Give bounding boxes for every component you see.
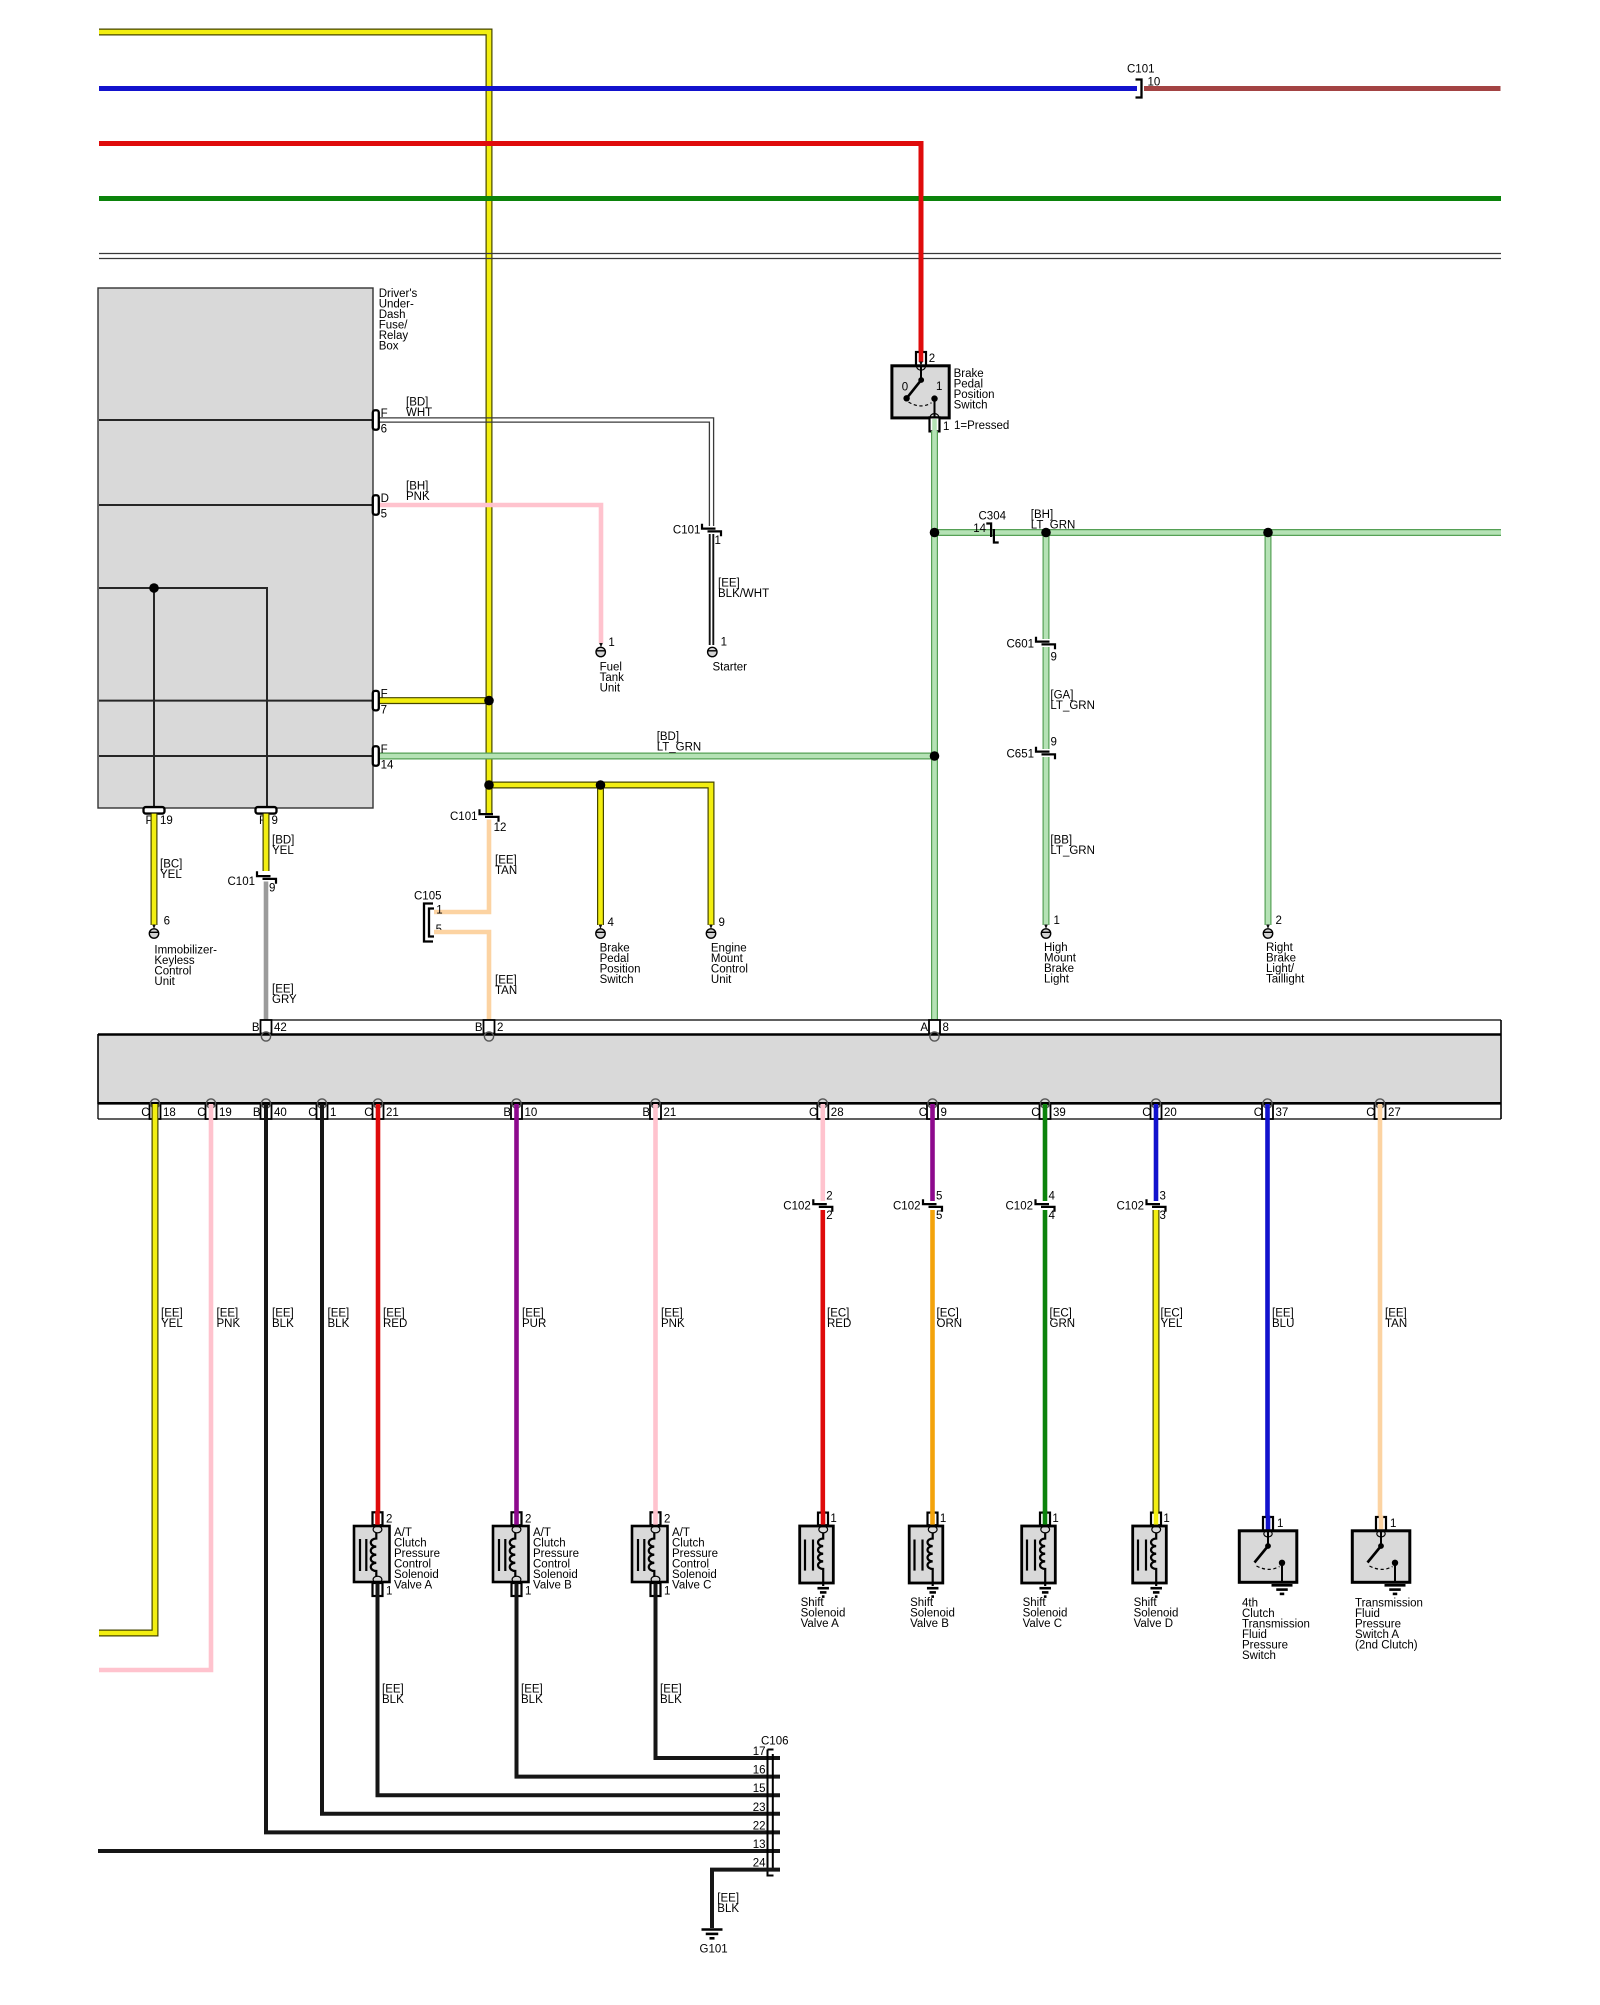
wire [EC] YEL C102-3 to Shift Solenoid Valve D <box>1153 1210 1160 1524</box>
svg-text:37: 37 <box>1276 1107 1289 1119</box>
connector C106 multi-pin <box>753 1735 789 1875</box>
svg-text:F: F <box>381 408 388 420</box>
node Engine Mount Control Unit <box>706 917 748 986</box>
svg-text:F: F <box>381 744 388 756</box>
connector C304 pin 14 <box>973 510 1006 542</box>
wire yellow drop to Brake Pedal Position Switch (body) <box>597 785 604 925</box>
svg-text:C101: C101 <box>673 525 701 537</box>
connector C28 on bus bar bottom <box>809 1099 844 1119</box>
svg-text:WHT: WHT <box>406 407 432 419</box>
solenoid Shift Solenoid Valve D <box>1133 1511 1179 1630</box>
svg-text:TAN: TAN <box>495 985 517 997</box>
connector F7 on fuse box <box>373 689 388 717</box>
svg-text:9: 9 <box>941 1107 947 1119</box>
label [EE] BLK valve A <box>382 1683 404 1706</box>
wire [EE] PUR C9 to C102-5 <box>930 1104 935 1201</box>
svg-text:Starter: Starter <box>713 661 748 673</box>
svg-text:1: 1 <box>1390 1518 1396 1530</box>
svg-text:G101: G101 <box>700 1943 728 1955</box>
connector C21 on bus bar bottom <box>364 1099 399 1119</box>
svg-text:Valve C: Valve C <box>1023 1618 1062 1630</box>
svg-text:6: 6 <box>164 915 170 927</box>
component Brake Pedal Position Switch <box>892 144 995 433</box>
svg-text:15: 15 <box>753 1783 766 1795</box>
wire yellow from F7 to vertical feed <box>377 697 489 704</box>
connector F9 on fuse box <box>256 807 278 827</box>
svg-text:C102: C102 <box>783 1201 811 1213</box>
label [BH] LT_GRN <box>1031 509 1076 532</box>
node Immobilizer-Keyless Control Unit <box>149 915 217 988</box>
svg-text:20: 20 <box>1164 1107 1177 1119</box>
svg-text:5: 5 <box>936 1191 942 1203</box>
svg-text:Unit: Unit <box>154 976 175 988</box>
svg-text:LT_GRN: LT_GRN <box>1050 700 1095 712</box>
svg-text:C: C <box>919 1107 927 1119</box>
svg-text:1: 1 <box>940 1513 946 1525</box>
wire internal fuse box to D5 <box>99 504 372 506</box>
svg-text:14: 14 <box>973 523 986 535</box>
junction LT_GRN high mount branch <box>1041 528 1051 538</box>
svg-text:39: 39 <box>1053 1107 1066 1119</box>
connector C601 pin 9 <box>1007 637 1057 664</box>
wire maroon from C101-10 to right edge <box>1144 86 1501 91</box>
svg-text:RED: RED <box>827 1318 851 1330</box>
wire [BC] YEL hot feed (top, turns down at x489) <box>99 32 489 813</box>
svg-text:18: 18 <box>163 1107 176 1119</box>
svg-text:5: 5 <box>381 509 387 521</box>
svg-text:BLK: BLK <box>328 1318 350 1330</box>
connector C101 pin 1 <box>673 524 721 547</box>
svg-text:14: 14 <box>381 760 394 772</box>
svg-text:10: 10 <box>525 1107 538 1119</box>
connector C102 pin 3 <box>1117 1191 1166 1223</box>
bus bar control unit <box>98 1020 1501 1119</box>
svg-text:B: B <box>475 1022 483 1034</box>
wire [EE] TAN C105-5 to B2 <box>434 932 489 1036</box>
svg-text:1: 1 <box>608 637 614 649</box>
ground case Shift Solenoid Valve B <box>927 1588 939 1596</box>
wire RED to Brake Pedal Position Switch pin 2 <box>99 144 921 364</box>
label [EE] PUR <box>522 1307 546 1330</box>
wire WHT full width (double line) <box>99 254 1501 259</box>
junction yellow brake switch branch <box>596 780 606 790</box>
junction LT_GRN at switch drop <box>930 528 940 538</box>
svg-text:9: 9 <box>719 917 725 929</box>
svg-text:1=Pressed: 1=Pressed <box>954 420 1009 432</box>
label [BD] LT_GRN <box>657 731 702 754</box>
svg-text:Light: Light <box>1044 973 1070 985</box>
solenoid A/T Clutch Pressure Control Solenoid Valve B <box>493 1511 579 1598</box>
label [BD] YEL <box>272 834 294 857</box>
label [EE] PNK C19 <box>217 1307 241 1330</box>
wire [EE] BLK C1 to C106 pin 23 <box>322 1104 780 1814</box>
junction yellow at vertical feed <box>484 780 494 790</box>
wire [BC] YEL P19 to Immobilizer <box>151 814 158 925</box>
wire [EE] BLK valve C to C106 pin 17 <box>656 1596 781 1758</box>
svg-text:22: 22 <box>753 1820 766 1832</box>
svg-text:9: 9 <box>1051 651 1057 663</box>
connector F6 on fuse box <box>373 408 388 436</box>
Driver's Under-Dash Fuse/Relay Box <box>98 288 418 808</box>
svg-text:PNK: PNK <box>217 1318 241 1330</box>
node Brake Pedal Position Switch (body side) <box>596 917 641 986</box>
svg-text:C: C <box>364 1107 372 1119</box>
svg-text:BLK: BLK <box>272 1318 294 1330</box>
wire [EE] TAN C27 to Transmission Fluid Pressure Switch A <box>1378 1104 1383 1528</box>
wire [EE] BLK/WHT from C101-1 to Starter <box>710 534 714 645</box>
wire [EC] GRN C102-4 to Shift Solenoid Valve C <box>1043 1210 1048 1524</box>
connector C101 pin 9 <box>228 871 277 894</box>
label [BC] YEL <box>160 858 182 881</box>
connector C105 pins 1 and 5 <box>414 890 443 941</box>
svg-text:GRY: GRY <box>272 994 297 1006</box>
label [EE] BLK C1 <box>328 1307 350 1330</box>
ground case 4th Clutch Transmission Fluid Pressure Switch pressure switch <box>1272 1585 1293 1594</box>
label [BB] LT_GRN <box>1050 834 1095 857</box>
svg-text:C101: C101 <box>1127 63 1155 75</box>
svg-text:YEL: YEL <box>161 1318 183 1330</box>
svg-text:4: 4 <box>608 917 615 929</box>
svg-text:RED: RED <box>383 1318 407 1330</box>
wire [EE] BLU C20 to C102-3 <box>1154 1104 1159 1201</box>
svg-text:C: C <box>1366 1107 1374 1119</box>
svg-text:B: B <box>252 1022 260 1034</box>
svg-text:13: 13 <box>753 1839 766 1851</box>
connector B10 on bus bar bottom <box>503 1099 537 1119</box>
svg-text:C: C <box>1031 1107 1039 1119</box>
svg-text:28: 28 <box>831 1107 844 1119</box>
svg-text:C102: C102 <box>1006 1201 1034 1213</box>
svg-text:1: 1 <box>1052 1513 1058 1525</box>
svg-text:LT_GRN: LT_GRN <box>657 741 702 753</box>
node Fuel Tank Unit <box>596 637 624 695</box>
svg-text:3: 3 <box>1160 1191 1166 1203</box>
wire [EE] BLK C106 pin 24 to G101 <box>712 1870 780 1928</box>
label [EE] BLK valve B <box>521 1683 543 1706</box>
wire [EE] PNK C28 to C102-2 <box>820 1104 825 1201</box>
label [EE] BLK/WHT <box>718 577 769 600</box>
svg-text:TAN: TAN <box>495 865 517 877</box>
svg-text:2: 2 <box>386 1514 392 1526</box>
label [EE] RED <box>383 1307 407 1330</box>
svg-text:19: 19 <box>160 815 173 827</box>
wire [EE] BLK long feed to C106 pin 13 <box>98 1849 780 1853</box>
svg-text:BLK/WHT: BLK/WHT <box>718 588 769 600</box>
svg-text:2: 2 <box>497 1022 503 1034</box>
svg-text:8: 8 <box>943 1022 949 1034</box>
svg-text:Taillight: Taillight <box>1266 973 1305 985</box>
connector C102 pin 2 <box>783 1191 832 1223</box>
solenoid Shift Solenoid Valve B <box>909 1511 955 1630</box>
svg-text:C101: C101 <box>228 876 256 888</box>
svg-text:4: 4 <box>1049 1210 1056 1222</box>
wire [EE] BLK B40 to C106 pin 22 <box>266 1104 780 1832</box>
svg-text:17: 17 <box>753 1746 766 1758</box>
wire [EE] RED C21 to A/T Clutch Pressure Control Solenoid Valve A <box>376 1104 381 1524</box>
label [GA] LT_GRN <box>1050 689 1095 712</box>
label [BH] PNK <box>406 480 430 503</box>
connector C18 on bus bar bottom <box>141 1099 176 1119</box>
wire [EE] TAN C101-12 to C105-1 <box>434 820 489 913</box>
svg-text:D: D <box>381 493 389 505</box>
svg-text:C: C <box>308 1107 316 1119</box>
solenoid A/T Clutch Pressure Control Solenoid Valve A <box>354 1511 440 1598</box>
svg-text:ORN: ORN <box>937 1318 963 1330</box>
svg-text:4: 4 <box>1049 1191 1056 1203</box>
wire internal fuse box branch to P19 and F9 <box>99 588 267 807</box>
label [EE] BLK B40 <box>272 1307 294 1330</box>
wire LT_GRN drop to Right Brake Light <box>1265 533 1272 926</box>
wire GRN full width <box>99 196 1501 201</box>
connector C19 on bus bar bottom <box>197 1099 232 1119</box>
junction LT_GRN right brake light branch <box>1263 528 1273 538</box>
svg-text:A: A <box>920 1022 928 1034</box>
svg-text:1: 1 <box>1277 1518 1283 1530</box>
solenoid A/T Clutch Pressure Control Solenoid Valve C <box>632 1511 718 1598</box>
wire [BD] WHT from F6 to C101-1 <box>377 418 714 526</box>
label Transmission Fluid Pressure Switch A (2nd Clutch) pressure switch <box>1355 1597 1423 1651</box>
connector C20 on bus bar bottom <box>1142 1099 1177 1119</box>
ground case Shift Solenoid Valve A <box>817 1588 829 1596</box>
connector C102 pin 4 <box>1006 1191 1056 1223</box>
svg-text:Valve B: Valve B <box>533 1579 572 1591</box>
wire [EE] BLU C37 to 4th Clutch pressure switch <box>1265 1104 1270 1528</box>
svg-text:Valve D: Valve D <box>1134 1618 1173 1630</box>
svg-text:C102: C102 <box>1117 1201 1145 1213</box>
wire [BD] LT_GRN from F14 to brake light feed <box>377 753 935 760</box>
svg-text:C: C <box>197 1107 205 1119</box>
svg-text:3: 3 <box>1160 1210 1166 1222</box>
svg-text:YEL: YEL <box>1161 1318 1183 1330</box>
label 1=Pressed <box>954 420 1009 432</box>
svg-text:LT_GRN: LT_GRN <box>1050 845 1095 857</box>
wire [GA] LT_GRN C601 to C651 <box>1043 647 1050 749</box>
wire [EE] PNK B21 to A/T Clutch Pressure Control Solenoid Valve C <box>653 1104 658 1524</box>
svg-text:BLK: BLK <box>382 1694 404 1706</box>
connector C102 pin 5 <box>893 1191 942 1223</box>
node High Mount Brake Light <box>1041 915 1076 985</box>
svg-text:21: 21 <box>664 1107 677 1119</box>
svg-text:5: 5 <box>936 1210 942 1222</box>
label [EE] TAN upper <box>495 854 517 877</box>
wire internal fuse box to F14 <box>99 755 372 757</box>
junction LT_GRN at F14 feed <box>930 751 940 761</box>
label [EC] GRN <box>1050 1307 1076 1330</box>
connector B21 on bus bar bottom <box>642 1099 676 1119</box>
svg-text:C105: C105 <box>414 890 442 902</box>
svg-text:Box: Box <box>379 340 399 352</box>
svg-text:1: 1 <box>664 1586 670 1598</box>
junction yellow F7 feed <box>484 696 494 706</box>
ground case Shift Solenoid Valve D <box>1150 1588 1162 1596</box>
svg-text:6: 6 <box>381 424 387 436</box>
svg-text:12: 12 <box>494 822 507 834</box>
connector C1 on bus bar bottom <box>308 1099 336 1119</box>
connector C9 on bus bar bottom <box>919 1099 947 1119</box>
connector A8 on bus bar top <box>920 1020 949 1041</box>
ground G101 <box>700 1930 728 1956</box>
connector C39 on bus bar bottom <box>1031 1099 1066 1119</box>
svg-text:1: 1 <box>1054 915 1060 927</box>
connector B40 on bus bar bottom <box>253 1099 287 1119</box>
svg-text:9: 9 <box>1051 737 1057 749</box>
svg-text:1: 1 <box>943 421 949 433</box>
wire [BH] LT_GRN switch pin 1 down to A8 <box>931 431 938 1036</box>
svg-text:Valve A: Valve A <box>394 1579 432 1591</box>
svg-text:16: 16 <box>753 1765 766 1777</box>
label 4th Clutch Transmission Fluid Pressure Switch pressure switch <box>1242 1597 1310 1662</box>
svg-text:Valve A: Valve A <box>801 1618 839 1630</box>
svg-text:1: 1 <box>525 1586 531 1598</box>
svg-text:42: 42 <box>274 1022 287 1034</box>
wire [EC] RED C102-2 to Shift Solenoid Valve A <box>820 1210 825 1524</box>
svg-text:BLK: BLK <box>717 1903 739 1915</box>
label [BD] WHT <box>406 396 432 419</box>
svg-text:YEL: YEL <box>272 845 294 857</box>
connector C27 on bus bar bottom <box>1366 1099 1401 1119</box>
svg-text:BLU: BLU <box>1272 1318 1294 1330</box>
node Starter <box>708 637 748 674</box>
ground case Transmission Fluid Pressure Switch A (2nd Clutch) pressure switch <box>1385 1585 1406 1594</box>
switch 4th Clutch Transmission Fluid Pressure Switch pressure switch <box>1239 1516 1297 1584</box>
svg-text:1: 1 <box>436 904 442 916</box>
connector P19 on fuse box <box>144 807 173 827</box>
svg-text:C651: C651 <box>1007 748 1035 760</box>
label [EE] BLK valve C <box>660 1683 682 1706</box>
svg-text:BLK: BLK <box>660 1694 682 1706</box>
solenoid Shift Solenoid Valve C <box>1022 1511 1068 1630</box>
svg-text:19: 19 <box>219 1107 232 1119</box>
label [EC] RED <box>827 1307 851 1330</box>
ground case Shift Solenoid Valve C <box>1039 1588 1051 1596</box>
svg-text:2: 2 <box>664 1514 670 1526</box>
svg-text:Valve B: Valve B <box>910 1618 949 1630</box>
svg-text:2: 2 <box>525 1514 531 1526</box>
svg-text:Switch: Switch <box>600 974 634 986</box>
svg-text:TAN: TAN <box>1385 1318 1407 1330</box>
svg-text:2: 2 <box>826 1210 832 1222</box>
svg-text:C: C <box>1142 1107 1150 1119</box>
svg-text:C102: C102 <box>893 1201 921 1213</box>
wire [EE] GRY C101-9 to B42 <box>264 882 269 1037</box>
label [EE] TAN lower <box>495 974 517 997</box>
wire [BD] YEL F9 to C101-9 <box>263 814 270 871</box>
svg-text:27: 27 <box>1388 1107 1401 1119</box>
wire BLU to C101 pin 10 <box>99 86 1137 91</box>
svg-text:1: 1 <box>830 1513 836 1525</box>
junction internal fuse box <box>149 583 159 593</box>
wire [EE] PNK C19 down and left <box>99 1104 211 1670</box>
svg-text:Switch: Switch <box>954 399 988 411</box>
svg-text:B: B <box>503 1107 511 1119</box>
svg-text:0: 0 <box>902 382 908 394</box>
switch Transmission Fluid Pressure Switch A (2nd Clutch) pressure switch <box>1352 1516 1410 1584</box>
svg-text:(2nd Clutch): (2nd Clutch) <box>1355 1639 1418 1651</box>
svg-text:23: 23 <box>753 1802 766 1814</box>
connector C101 pin 10 <box>1127 63 1160 97</box>
svg-text:LT_GRN: LT_GRN <box>1031 519 1076 531</box>
wire [EC] ORN C102-5 to Shift Solenoid Valve B <box>930 1210 935 1524</box>
label [EE] BLK ground wire <box>717 1892 739 1915</box>
svg-text:Unit: Unit <box>711 974 732 986</box>
svg-text:BLK: BLK <box>521 1694 543 1706</box>
label [EE] GRY <box>272 983 297 1006</box>
svg-text:2: 2 <box>1276 915 1282 927</box>
wire [EE] BLK valve B to C106 pin 16 <box>517 1596 781 1777</box>
svg-text:Unit: Unit <box>600 682 621 694</box>
label [EC] YEL <box>1161 1307 1183 1330</box>
svg-text:C: C <box>1254 1107 1262 1119</box>
connector D5 on fuse box <box>373 493 389 521</box>
svg-text:B: B <box>253 1107 261 1119</box>
wire LT_GRN drop to High Mount Brake Light <box>1043 533 1050 640</box>
svg-text:1: 1 <box>721 637 727 649</box>
svg-text:40: 40 <box>274 1107 287 1119</box>
svg-text:C: C <box>809 1107 817 1119</box>
label [EE] TAN C27 <box>1385 1307 1407 1330</box>
wire yellow branch to Engine Mount Control Unit <box>489 785 711 925</box>
wire [EE] BLK valve A to C106 pin 15 <box>378 1596 781 1795</box>
label [EE] YEL <box>161 1307 183 1330</box>
svg-text:C304: C304 <box>979 510 1007 522</box>
svg-text:Valve C: Valve C <box>672 1579 711 1591</box>
label [EE] BLU <box>1272 1307 1294 1330</box>
svg-text:PNK: PNK <box>406 491 430 503</box>
connector B2 on bus bar top <box>475 1020 504 1041</box>
svg-text:1: 1 <box>330 1107 336 1119</box>
connector C101 pin 12 <box>450 809 506 834</box>
svg-text:PUR: PUR <box>522 1318 546 1330</box>
wire [EE] PUR B10 to A/T Clutch Pressure Control Solenoid Valve B <box>514 1104 519 1524</box>
svg-text:Switch: Switch <box>1242 1650 1276 1662</box>
svg-text:1: 1 <box>936 381 942 393</box>
svg-text:1: 1 <box>386 1586 392 1598</box>
svg-text:9: 9 <box>272 815 278 827</box>
label [EE] PNK B21 <box>661 1307 685 1330</box>
svg-text:F: F <box>381 689 388 701</box>
svg-text:C101: C101 <box>450 811 478 823</box>
connector F14 on fuse box <box>373 744 394 772</box>
solenoid Shift Solenoid Valve A <box>800 1511 846 1630</box>
node Right Brake Light/Taillight <box>1263 915 1305 985</box>
svg-text:2: 2 <box>826 1191 832 1203</box>
label [EC] ORN <box>937 1307 963 1330</box>
svg-text:C601: C601 <box>1007 638 1035 650</box>
svg-text:21: 21 <box>386 1107 399 1119</box>
svg-text:7: 7 <box>381 704 387 716</box>
svg-text:B: B <box>642 1107 650 1119</box>
svg-text:YEL: YEL <box>160 869 182 881</box>
wire [EE] GRN C39 to C102-4 <box>1043 1104 1048 1201</box>
wire internal fuse box to F7 <box>99 700 372 702</box>
wire internal fuse box to F6 <box>99 419 372 421</box>
connector C37 on bus bar bottom <box>1254 1099 1289 1119</box>
svg-text:2: 2 <box>929 353 935 365</box>
connector B42 on bus bar top <box>252 1020 287 1041</box>
svg-text:9: 9 <box>269 882 275 894</box>
svg-text:GRN: GRN <box>1050 1318 1076 1330</box>
wire [BH] LT_GRN horizontal to right edge <box>935 529 1502 536</box>
connector C651 pin 9 <box>1007 737 1057 761</box>
wire [EE] YEL C18 down and left <box>99 1104 155 1633</box>
svg-text:PNK: PNK <box>661 1318 685 1330</box>
wire [BH] PNK from D5 to Fuel Tank Unit <box>377 505 601 643</box>
svg-text:1: 1 <box>1163 1513 1169 1525</box>
wire [BB] LT_GRN C651 to High Mount Brake Light <box>1043 757 1050 925</box>
svg-text:C: C <box>141 1107 149 1119</box>
svg-text:1: 1 <box>715 535 721 547</box>
